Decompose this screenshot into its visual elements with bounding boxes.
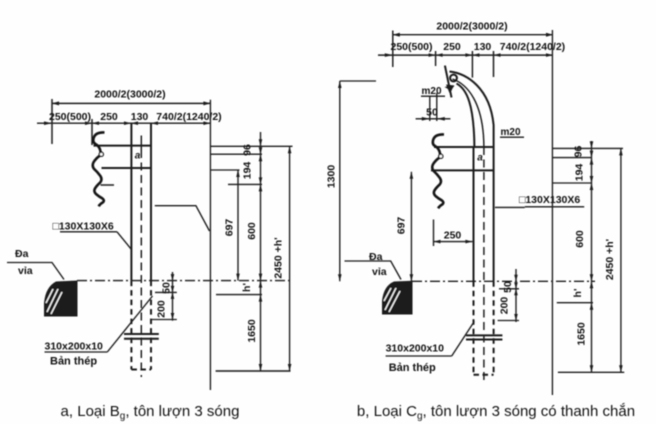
svg-text:50: 50 xyxy=(502,281,514,293)
svg-text:a: a xyxy=(477,153,483,164)
svg-text:50: 50 xyxy=(426,107,438,119)
svg-text:250: 250 xyxy=(443,41,461,53)
svg-text:697: 697 xyxy=(224,219,236,237)
svg-text:h': h' xyxy=(241,283,253,292)
svg-text:697: 697 xyxy=(396,217,408,235)
svg-text:1300: 1300 xyxy=(326,165,338,189)
svg-text:Đa: Đa xyxy=(15,248,29,260)
svg-text:m20: m20 xyxy=(422,86,442,97)
svg-text:250: 250 xyxy=(444,230,462,242)
svg-text:b, Loại Cg, tôn lượn 3 sóng có: b, Loại Cg, tôn lượn 3 sóng có thanh chắ… xyxy=(357,403,635,422)
svg-text:250(500): 250(500) xyxy=(49,111,91,123)
svg-text:310x200x10: 310x200x10 xyxy=(45,341,104,353)
svg-text:a: a xyxy=(135,151,141,162)
svg-text:250(500): 250(500) xyxy=(390,41,432,53)
svg-text:50: 50 xyxy=(161,282,173,294)
svg-text:200: 200 xyxy=(499,297,511,315)
svg-text:600: 600 xyxy=(574,230,586,248)
svg-text:Bản thép: Bản thép xyxy=(50,356,97,368)
svg-text:310x200x10: 310x200x10 xyxy=(386,343,445,355)
svg-text:1650: 1650 xyxy=(246,319,258,343)
svg-text:Bản thép: Bản thép xyxy=(389,362,436,374)
svg-text:vỉa: vỉa xyxy=(18,265,33,277)
svg-text:96: 96 xyxy=(242,144,254,156)
svg-text:2450 +h': 2450 +h' xyxy=(604,239,616,280)
svg-text:130: 130 xyxy=(474,41,492,53)
svg-text:2450 +h': 2450 +h' xyxy=(273,237,285,278)
svg-text:□130X130X6: □130X130X6 xyxy=(519,194,580,206)
svg-text:740/2(1240/2): 740/2(1240/2) xyxy=(500,41,565,53)
svg-text:a, Loại Bg, tôn lượn 3 sóng: a, Loại Bg, tôn lượn 3 sóng xyxy=(61,403,240,422)
svg-text:1650: 1650 xyxy=(576,322,588,346)
svg-text:250: 250 xyxy=(100,111,118,123)
svg-text:m20: m20 xyxy=(501,127,521,138)
svg-text:h': h' xyxy=(572,289,584,298)
svg-text:□130X130X6: □130X130X6 xyxy=(53,221,114,233)
svg-text:96: 96 xyxy=(573,146,585,158)
svg-text:200: 200 xyxy=(156,300,168,318)
svg-text:740/2(1240/2): 740/2(1240/2) xyxy=(156,111,221,123)
svg-text:2000/2(3000/2): 2000/2(3000/2) xyxy=(436,21,507,33)
svg-text:194: 194 xyxy=(574,164,586,182)
svg-text:194: 194 xyxy=(242,162,254,180)
svg-text:130: 130 xyxy=(131,111,149,123)
svg-text:2000/2(3000/2): 2000/2(3000/2) xyxy=(94,89,165,101)
svg-text:600: 600 xyxy=(246,222,258,240)
svg-text:vỉa: vỉa xyxy=(372,266,387,278)
